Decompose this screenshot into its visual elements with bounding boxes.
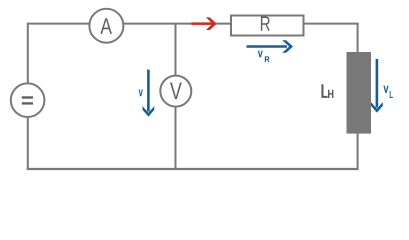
voltmeter V body (160, 76, 191, 107)
wire: middle vertical below voltmeter (175, 105, 177, 169)
current direction arrow (red) on top wire (191, 22, 212, 25)
inductor LH body (iron-core) (347, 52, 372, 134)
DC source symbol body (11, 83, 45, 117)
inductor label LH : subscript H (328, 90, 333, 98)
inductor label LH : letter L (321, 84, 327, 98)
wire: top from ammeter to resistor (123, 23, 231, 25)
wire: left vertical upper segment (27, 23, 29, 85)
voltage label vR (258, 51, 263, 58)
wire: top from resistor to right corner (304, 23, 359, 25)
ammeter A body (89, 9, 123, 43)
wire: top left from corner to ammeter (28, 23, 90, 25)
DC source = symbol (22, 96, 33, 98)
resistor value label R (261, 17, 270, 31)
voltmeter letter V (170, 83, 182, 100)
voltage arrow vL (376, 59, 379, 108)
voltage arrow vR (247, 45, 288, 48)
wire: right vertical below inductor (357, 133, 359, 170)
voltage label v (139, 89, 143, 96)
resistor R body (231, 16, 304, 36)
wire: right vertical above inductor (357, 23, 359, 53)
wire: middle vertical above voltmeter (175, 24, 177, 77)
ammeter letter A (100, 18, 112, 34)
wire: left vertical lower segment (27, 117, 29, 170)
wire: bottom horizontal (27, 168, 359, 170)
voltage arrow v (across voltmeter) (147, 70, 150, 112)
voltage label vL (383, 86, 388, 93)
